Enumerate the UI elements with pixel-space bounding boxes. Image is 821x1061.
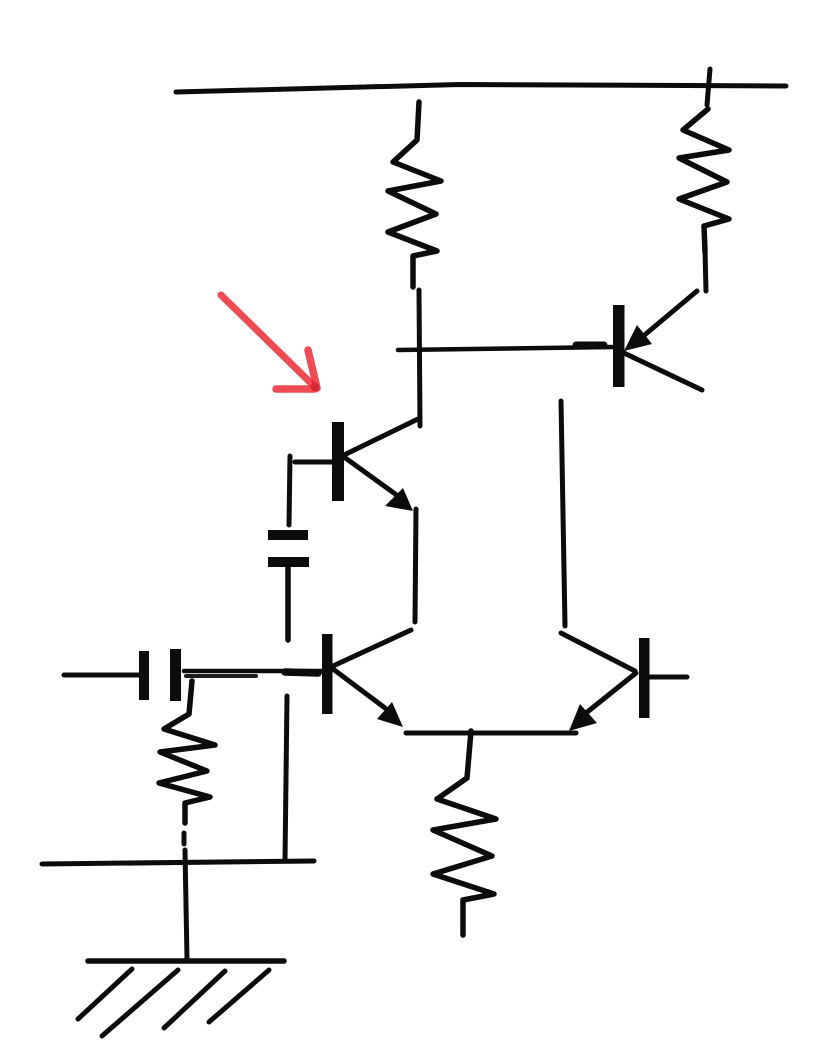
Q1 emitter diagonal xyxy=(344,457,398,496)
Q4 emitter diagonal xyxy=(641,291,697,338)
Q4 base bar xyxy=(613,305,625,387)
wire: Q1 emitter to Q2 collector xyxy=(415,509,416,622)
Q1 collector diagonal xyxy=(344,419,418,455)
Q3 emitter diagonal xyxy=(586,673,636,713)
wire: C2 bottom lead xyxy=(285,567,291,640)
Q4 emitter arrowhead (points into bar) xyxy=(624,325,652,351)
ground hatch 3 xyxy=(164,971,225,1028)
Q4 collector diagonal xyxy=(624,353,702,390)
resistor R4 (tail resistor) xyxy=(433,731,496,935)
wire: shared emitter line xyxy=(406,731,576,736)
wire: R3 to ground bar xyxy=(185,850,187,959)
wire: R2 bottom stub to Q4 emitter xyxy=(705,250,706,291)
wire: Q1 collector vertical xyxy=(419,290,420,426)
wire: thick dash on Q4 base xyxy=(576,342,604,349)
Q2 collector diagonal xyxy=(333,630,411,666)
wire: C1 to Q2 base xyxy=(184,669,322,674)
Q2 emitter arrowhead xyxy=(377,702,403,727)
wire: Q1 base vertical down to C2 xyxy=(289,456,290,525)
ground bar xyxy=(88,958,284,964)
Q3 collector diagonal xyxy=(561,633,635,671)
transistor Q2 (lower middle NPN) xyxy=(322,630,411,727)
Q2 base bar xyxy=(322,634,333,714)
Q2 emitter diagonal xyxy=(333,669,385,708)
wire: thick dash at Q2 base xyxy=(285,672,318,673)
Q1 base wire xyxy=(295,460,332,465)
Q3 emitter arrowhead xyxy=(569,704,597,731)
ground symbol xyxy=(78,961,284,1036)
wire: top power rail xyxy=(176,85,786,93)
resistor R3 (left vertical) xyxy=(159,681,215,823)
ground hatch 2 xyxy=(102,970,178,1036)
wire: Q3 collector vertical xyxy=(561,401,565,626)
ground hatch 4 xyxy=(209,970,269,1022)
transistor Q3 (lower right NPN, mirrored) xyxy=(561,633,687,731)
red annotation arrow xyxy=(221,295,320,392)
resistor R1 (top centre) xyxy=(388,102,441,287)
transistor Q1 (upper middle NPN) xyxy=(295,419,418,511)
capacitor C1 (input coupling, vertical plates) xyxy=(139,649,181,701)
wire: bottom ground rail xyxy=(42,861,314,864)
transistor Q4 (top right PNP) xyxy=(613,291,702,390)
wire: R2 tick through rail xyxy=(707,69,710,105)
wire: C2 node down to ground rail xyxy=(285,696,287,861)
resistor R2 (top right) xyxy=(679,109,729,252)
wire: Q4 base line to Q1 collector node xyxy=(398,347,614,350)
Q1 base bar xyxy=(332,422,344,501)
capacitor C2 (left middle, horizontal plates) xyxy=(268,530,309,567)
Q3 base wire xyxy=(649,675,687,680)
wire: R3 bottom dash xyxy=(182,833,187,844)
wire: doubled stroke under base wire xyxy=(186,674,256,678)
Q1 emitter arrowhead xyxy=(385,488,413,511)
ground hatch 1 xyxy=(78,969,132,1019)
wire: input lead xyxy=(64,673,139,678)
Q3 base bar xyxy=(639,638,650,718)
